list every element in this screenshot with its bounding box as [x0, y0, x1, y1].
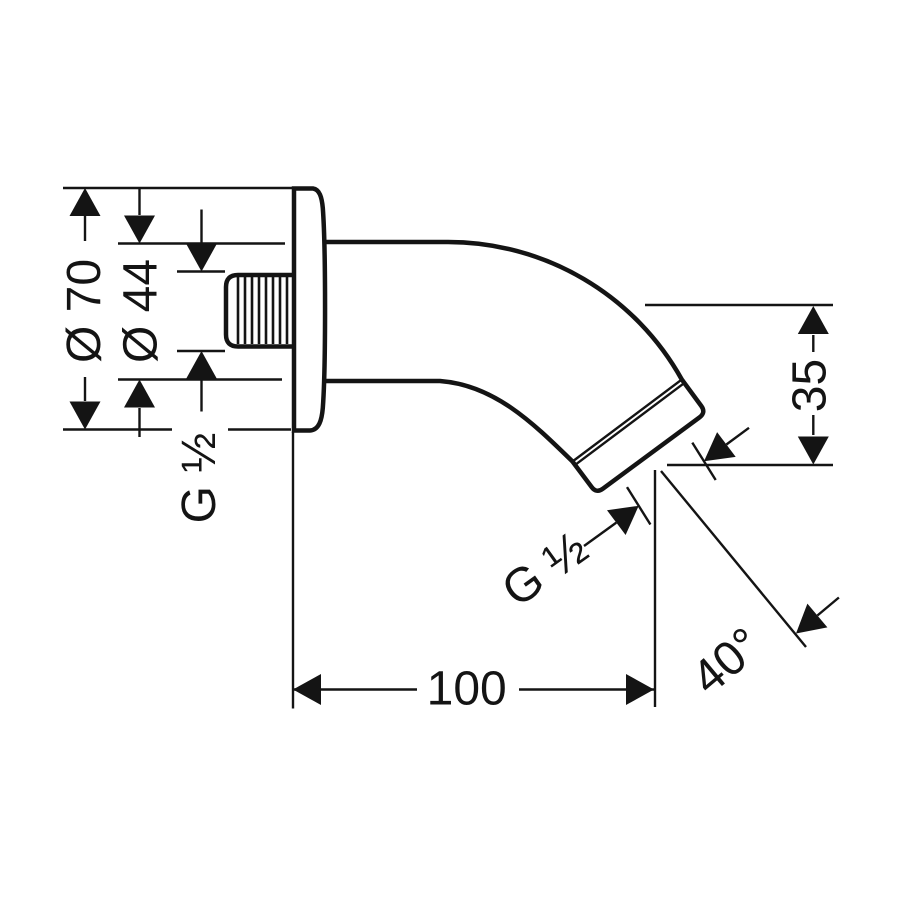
svg-text:35: 35	[784, 359, 837, 412]
svg-text:G ½: G ½	[173, 433, 226, 524]
svg-text:100: 100	[427, 663, 507, 716]
svg-text:Ø 44: Ø 44	[115, 259, 168, 363]
svg-text:Ø 70: Ø 70	[58, 259, 111, 363]
